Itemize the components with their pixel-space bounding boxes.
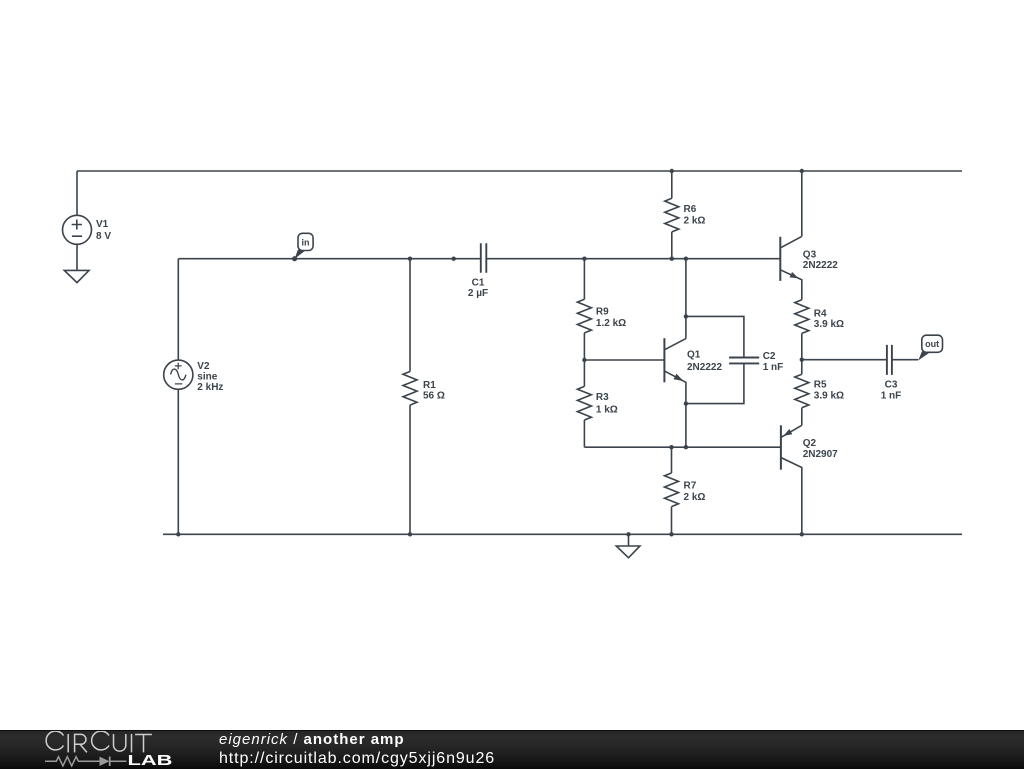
wire out link [802, 359, 887, 361]
resistor R7 [665, 473, 679, 507]
svg-text:LAB: LAB [128, 753, 173, 769]
svg-text:2 kHz: 2 kHz [197, 382, 223, 393]
svg-text:1 kΩ: 1 kΩ [596, 404, 618, 415]
wire C3 to out [892, 359, 918, 361]
wire lower mid rail [584, 446, 781, 448]
junction R6 bottom [670, 257, 674, 261]
junction Q1 collector branch [684, 257, 688, 261]
junction Q3 collector top rail [800, 169, 804, 173]
svg-text:in: in [302, 238, 310, 248]
footer title text [219, 731, 405, 748]
wire R3 bottom lead [583, 420, 585, 447]
wire R9 bottom lead [583, 333, 585, 360]
voltage source V2 [164, 360, 193, 389]
svg-text:Q3: Q3 [803, 250, 817, 261]
wire V1 bottom stem [76, 244, 78, 270]
wire C2 bottom link [686, 363, 744, 403]
svg-text:R1: R1 [423, 380, 436, 391]
wire Q1 emitter column [685, 404, 687, 448]
wire V2 top stem [177, 259, 179, 361]
wire R7 bottom lead [671, 507, 673, 535]
svg-text:Q2: Q2 [803, 438, 817, 449]
wire R6 top lead [671, 171, 673, 198]
svg-text:2 µF: 2 µF [468, 288, 488, 299]
wire top rail [77, 170, 962, 172]
junction Q2 collector rail [800, 532, 804, 536]
svg-text:56 Ω: 56 Ω [423, 391, 445, 402]
svg-text:R7: R7 [684, 480, 697, 491]
svg-text:8 V: 8 V [96, 231, 111, 242]
wire Q3 collector column [801, 171, 803, 236]
resistor R3 [577, 386, 591, 420]
wire V2 bottom stem [177, 389, 179, 534]
junction Q1 emitter C2 [684, 401, 688, 405]
resistor R1 [403, 372, 417, 406]
wire R1 bottom lead [409, 405, 411, 534]
svg-text:R6: R6 [684, 204, 697, 215]
svg-text:2 kΩ: 2 kΩ [684, 216, 706, 227]
wire V1 top stem [76, 171, 78, 215]
wire Q1 base [584, 359, 664, 361]
svg-text:2N2222: 2N2222 [803, 260, 838, 271]
svg-text:1.2 kΩ: 1.2 kΩ [596, 318, 626, 329]
transistor Q3 [780, 236, 802, 299]
junction Q1 collector C2 [684, 314, 688, 318]
svg-text:R5: R5 [814, 379, 827, 390]
svg-text:out: out [925, 339, 939, 349]
svg-text:C2: C2 [763, 351, 776, 362]
capacitor C3 [887, 345, 892, 375]
junction R1 top [408, 257, 412, 261]
wire R1 top lead [409, 259, 411, 372]
capacitor C2 [729, 358, 759, 364]
wire R7 top lead [671, 447, 673, 473]
svg-text:2N2222: 2N2222 [687, 362, 722, 373]
svg-text:C3: C3 [885, 379, 898, 390]
svg-text:3.9 kΩ: 3.9 kΩ [814, 319, 844, 330]
wire mid rail [178, 258, 780, 260]
wire R5 bottom lead [801, 408, 803, 426]
wire R9 top lead [583, 259, 585, 300]
junction R7 top [669, 445, 673, 449]
wire R6 bottom lead [671, 232, 673, 259]
junction V2 bottom [176, 532, 180, 536]
node in flag [295, 233, 314, 259]
transistor Q1 [664, 338, 686, 403]
svg-text:1 nF: 1 nF [763, 362, 784, 373]
resistor R6 [665, 198, 679, 232]
logo resistor-diode glyph [45, 757, 126, 766]
svg-text:2 kΩ: 2 kΩ [684, 492, 706, 503]
junction Q1 emitter rail [684, 445, 688, 449]
svg-text:1 nF: 1 nF [881, 391, 902, 402]
ground (bottom) [616, 546, 640, 558]
svg-text:sine: sine [197, 371, 217, 382]
resistor R4 [795, 300, 809, 334]
svg-text:R9: R9 [596, 306, 609, 317]
footer url text [219, 750, 495, 768]
svg-text:C1: C1 [472, 278, 485, 289]
svg-text:3.9 kΩ: 3.9 kΩ [814, 390, 844, 401]
node in anchor dot [292, 256, 297, 261]
svg-text:R4: R4 [814, 308, 827, 319]
junction R4 R5 out [800, 358, 804, 362]
svg-text:V2: V2 [197, 361, 210, 372]
wire ground stub [628, 534, 630, 546]
junction R6 top rail [670, 169, 674, 173]
wire R3 top lead [583, 360, 585, 386]
junction R9 R3 base [582, 358, 586, 362]
logo CIRCUIT [46, 731, 152, 752]
junction C1 left [452, 257, 456, 261]
wire Q1 collector column [685, 259, 687, 339]
ground (V1) [64, 270, 89, 282]
svg-text:V1: V1 [96, 219, 109, 230]
resistor R5 [795, 374, 809, 408]
svg-text:2N2907: 2N2907 [803, 449, 838, 460]
resistor R9 [577, 299, 591, 333]
junction R1 bottom [408, 532, 412, 536]
transistor Q2 [781, 425, 802, 534]
wire R4 bottom lead [801, 333, 803, 359]
wire R5 top lead [801, 360, 803, 375]
svg-text:R3: R3 [596, 392, 609, 403]
wire bottom rail [163, 533, 962, 535]
capacitor C1 [481, 243, 487, 273]
junction R9 top [582, 257, 586, 261]
node out flag [918, 335, 942, 360]
voltage source V1 [63, 215, 92, 244]
wire C2 top link [686, 316, 744, 357]
svg-text:Q1: Q1 [687, 350, 701, 361]
junction R7 bottom [669, 532, 673, 536]
junction ground rail [626, 532, 630, 536]
footer bar [0, 730, 1024, 769]
